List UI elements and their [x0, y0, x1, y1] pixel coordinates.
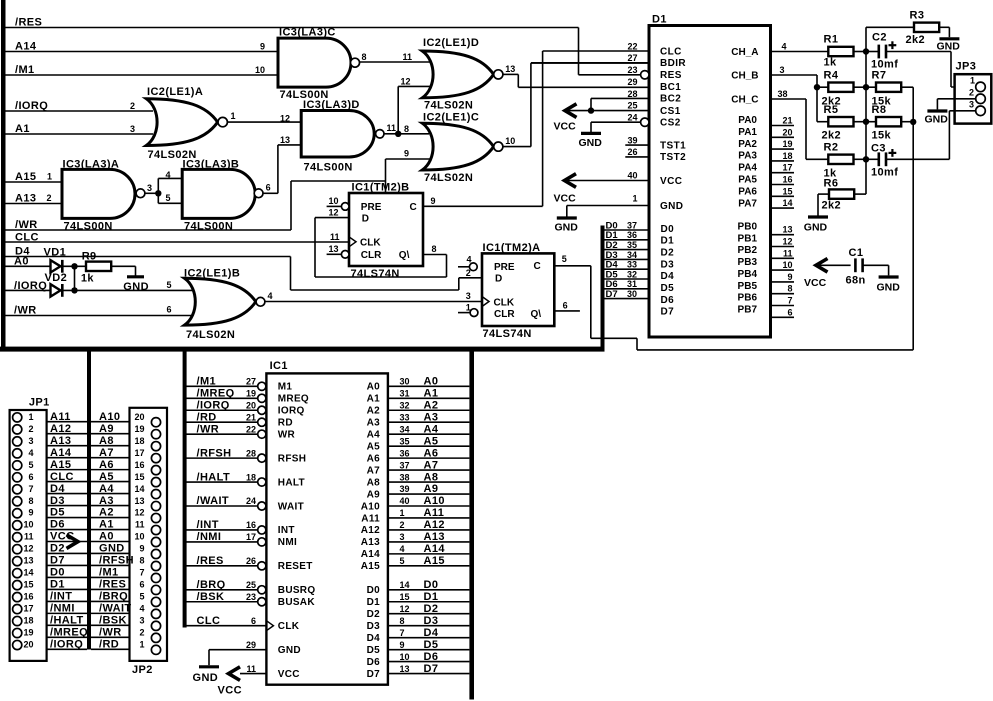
svg-text:D7: D7: [50, 555, 65, 567]
svg-text:25: 25: [246, 580, 256, 590]
svg-text:16: 16: [782, 175, 792, 185]
wire D4 horizontal to TM2A: [291, 289, 459, 291]
svg-text:19: 19: [782, 139, 792, 149]
svg-text:18: 18: [246, 472, 256, 482]
svg-text:20: 20: [134, 412, 144, 422]
svg-text:VD1: VD1: [44, 246, 67, 258]
wire D1 CH_B pin3: [771, 74, 817, 76]
wire IC1 GND pin29: [209, 649, 266, 651]
wire JP1 pin20 row (/IORQ): [47, 648, 87, 650]
svg-text:R9: R9: [82, 251, 97, 263]
svg-text:7: 7: [28, 484, 33, 494]
svg-text:7: 7: [139, 568, 144, 578]
svg-text:1: 1: [231, 111, 236, 121]
svg-text:A6: A6: [424, 447, 439, 459]
junction dot R8 node: [910, 119, 916, 125]
diode VD2: [51, 284, 61, 296]
pin circle JP2-7: [151, 573, 160, 582]
power VCC arrow (JP1 row11): [67, 535, 79, 549]
svg-text:11: 11: [246, 664, 256, 674]
svg-text:13: 13: [400, 664, 410, 674]
svg-text:A2: A2: [367, 406, 381, 417]
svg-text:37: 37: [627, 220, 637, 230]
svg-text:10mf: 10mf: [871, 166, 898, 178]
svg-text:R7: R7: [872, 69, 887, 81]
wire IC3B out: [263, 192, 278, 194]
wire D1 D0 pin37: [605, 229, 650, 231]
wire D1 D7 pin30: [605, 298, 650, 300]
bubble CLR pin13: [341, 251, 349, 259]
svg-text:12: 12: [280, 113, 290, 123]
svg-text:PB1: PB1: [738, 233, 758, 244]
svg-text:A1: A1: [424, 387, 439, 399]
wire D1 CLC pin22: [543, 50, 649, 52]
svg-text:PB7: PB7: [738, 305, 758, 316]
wire IC1 A3 pin33: [388, 421, 470, 423]
svg-text:24: 24: [627, 112, 637, 122]
junction dot R5/R8: [863, 119, 869, 125]
svg-text:A4: A4: [367, 429, 381, 440]
svg-text:R6: R6: [824, 177, 839, 189]
svg-text:9: 9: [787, 272, 792, 282]
svg-text:15: 15: [782, 186, 792, 196]
wire D1 BC2 pin28: [591, 97, 649, 99]
wire IC1 A15 pin5: [388, 565, 470, 567]
output bubble IC2A: [218, 117, 227, 126]
svg-text:A2: A2: [99, 507, 114, 519]
svg-text:9: 9: [400, 640, 405, 650]
svg-text:23: 23: [627, 65, 637, 75]
svg-text:3: 3: [147, 183, 152, 193]
ground (R6): [808, 215, 828, 218]
wire JP1 pin6 row (CLC): [47, 481, 87, 483]
wire thick IC1 control bus vertical: [183, 351, 187, 628]
output bubble IC2D: [494, 70, 503, 79]
svg-text:16: 16: [134, 460, 144, 470]
svg-text:74LS00N: 74LS00N: [64, 220, 113, 232]
bubble pin16: [258, 526, 266, 534]
svg-text:19: 19: [23, 628, 33, 638]
svg-text:2: 2: [139, 628, 144, 638]
wire /IORQ row to VD2: [5, 289, 51, 291]
pin circle JP1-18: [13, 616, 22, 625]
svg-text:IC3(LA3)C: IC3(LA3)C: [279, 26, 336, 38]
svg-text:6: 6: [787, 307, 792, 317]
svg-text:1k: 1k: [81, 272, 95, 284]
svg-text:21: 21: [782, 116, 792, 126]
wire D1 D1 pin36: [605, 239, 650, 241]
wire D1 D4 pin33: [605, 268, 650, 270]
svg-text:A15: A15: [424, 555, 445, 567]
junction dot BC2/CS1: [588, 107, 594, 113]
ground (JP3 pin2): [927, 109, 947, 112]
pin circle JP1-12: [13, 545, 22, 554]
svg-text:A7: A7: [99, 447, 114, 459]
svg-text:JP2: JP2: [132, 664, 153, 676]
svg-text:CLK: CLK: [278, 621, 300, 632]
wire /WR vertical to pin9 row: [385, 159, 387, 193]
svg-text:CS1: CS1: [660, 106, 681, 117]
svg-text:IC2(LE1)A: IC2(LE1)A: [147, 86, 203, 98]
svg-text:5: 5: [166, 193, 171, 203]
bubble pin23: [258, 598, 266, 606]
svg-text:CLC: CLC: [197, 615, 221, 627]
svg-text:/RES: /RES: [197, 555, 224, 567]
svg-text:10: 10: [400, 652, 410, 662]
wire IC1 A1 pin31: [388, 397, 470, 399]
wire R1 to node: [854, 51, 867, 53]
svg-text:19: 19: [134, 424, 144, 434]
svg-text:A6: A6: [99, 459, 114, 471]
svg-text:36: 36: [400, 448, 410, 458]
wire /M1 row to IC3C pin10: [5, 74, 278, 76]
svg-text:8: 8: [362, 52, 367, 62]
svg-text:8: 8: [787, 284, 792, 294]
svg-text:D0: D0: [424, 579, 439, 591]
svg-text:34: 34: [627, 250, 637, 260]
svg-text:PB2: PB2: [738, 245, 758, 256]
bubble pin20: [258, 406, 266, 414]
svg-text:HALT: HALT: [278, 477, 305, 488]
wire JP1 pin5 row (A15): [47, 469, 87, 471]
wire CH_C vertical: [805, 99, 807, 159]
wire D4 row: [5, 256, 291, 258]
svg-text:20: 20: [782, 127, 792, 137]
wire JP1 pin9 row (D5): [47, 517, 87, 519]
pin circle JP2-18: [151, 442, 160, 451]
svg-text:JP3: JP3: [956, 61, 977, 73]
svg-text:WR: WR: [278, 429, 296, 440]
svg-text:PA0: PA0: [738, 115, 757, 126]
svg-text:30: 30: [627, 289, 637, 299]
wire BC2 to CS1 junction: [590, 98, 592, 110]
ground (IC1 pin29): [199, 665, 219, 668]
pin circle JP1-6: [13, 473, 22, 482]
pin circle JP2-8: [151, 561, 160, 570]
svg-text:/BRQ: /BRQ: [99, 591, 128, 603]
wire IC3C out to IC2D pin11: [360, 61, 430, 63]
svg-text:RFSH: RFSH: [278, 453, 306, 464]
resistor R8: [866, 121, 876, 123]
svg-text:14: 14: [400, 580, 410, 590]
svg-text:A11: A11: [50, 411, 71, 423]
pin circle JP2-17: [151, 454, 160, 463]
svg-text:40: 40: [627, 171, 637, 181]
output bubble IC3B: [254, 189, 263, 198]
svg-text:CH_A: CH_A: [731, 47, 758, 58]
svg-text:/BSK: /BSK: [99, 615, 127, 627]
wire into TM2A D pin2: [459, 277, 482, 279]
svg-text:28: 28: [627, 89, 637, 99]
wire VD1 cathode to R9: [62, 265, 86, 267]
svg-text:BUSRQ: BUSRQ: [278, 585, 316, 596]
pin circle JP1-1: [13, 413, 22, 422]
svg-text:D: D: [495, 274, 502, 285]
svg-text:36: 36: [627, 230, 637, 240]
svg-text:R3: R3: [910, 10, 925, 22]
svg-text:2: 2: [47, 193, 52, 203]
output bubble IC3A: [136, 189, 145, 198]
svg-text:D4: D4: [424, 627, 439, 639]
wire D1 CS1 pin25 to VCC: [566, 110, 649, 112]
svg-text:D4: D4: [367, 633, 381, 644]
svg-text:1: 1: [400, 508, 405, 518]
svg-text:/WR: /WR: [197, 423, 220, 435]
pin circle JP2-12: [151, 513, 160, 522]
bubble PRE pin4: [469, 263, 477, 271]
wire IC3A out to junction: [145, 192, 158, 194]
svg-text:GND: GND: [278, 645, 301, 656]
svg-text:29: 29: [246, 640, 256, 650]
bubble pin19: [258, 394, 266, 402]
pin circle JP1-4: [13, 449, 22, 458]
svg-text:1: 1: [139, 640, 144, 650]
wire IC1 /INT pin16: [187, 529, 258, 531]
svg-text:PB4: PB4: [738, 269, 758, 280]
svg-text:RESET: RESET: [278, 561, 313, 572]
svg-text:PB5: PB5: [738, 281, 758, 292]
svg-text:A14: A14: [424, 543, 446, 555]
wire IC1 /BRQ pin25: [187, 589, 258, 591]
svg-text:/NMI: /NMI: [50, 603, 75, 615]
wire JP3 pin2 to GND: [937, 98, 975, 100]
capacitor C2: [877, 45, 880, 59]
wire IC1 A13 pin3: [388, 541, 470, 543]
power VCC arrow (IC1): [229, 667, 241, 681]
svg-text:GND: GND: [660, 201, 683, 212]
svg-text:10: 10: [134, 532, 144, 542]
svg-text:/HALT: /HALT: [50, 615, 84, 627]
svg-text:/MREQ: /MREQ: [197, 387, 235, 399]
polarity plus C2: [889, 44, 897, 46]
resistor R2: [828, 155, 853, 164]
capacitor C3: [877, 152, 880, 166]
diode VD1: [51, 260, 61, 272]
wire IC1 A2 pin32: [388, 409, 470, 411]
wire IC1 A11 pin1: [388, 517, 470, 519]
svg-text:4: 4: [400, 544, 405, 554]
svg-text:27: 27: [627, 53, 637, 63]
svg-text:GND: GND: [804, 221, 828, 233]
svg-text:C3: C3: [871, 142, 886, 154]
wire IC1 /WAIT pin24: [187, 505, 258, 507]
junction dot R1/C2: [863, 48, 869, 54]
wire to IC3B pin4: [158, 177, 183, 179]
svg-text:20: 20: [246, 400, 256, 410]
svg-text:A4: A4: [424, 423, 439, 435]
bubble CLR pin1: [470, 309, 478, 317]
wire thick IC1 address/data bus vertical: [469, 351, 474, 700]
svg-text:17: 17: [134, 448, 144, 458]
svg-text:/WAIT: /WAIT: [99, 603, 132, 615]
svg-text:VCC: VCC: [660, 176, 682, 187]
svg-text:PB3: PB3: [738, 257, 758, 268]
svg-text:CLR: CLR: [361, 250, 382, 261]
svg-text:7: 7: [400, 628, 405, 638]
svg-text:2: 2: [466, 268, 471, 278]
svg-text:37: 37: [400, 460, 410, 470]
svg-text:74LS00N: 74LS00N: [304, 161, 353, 173]
wire IC3D out: [384, 133, 398, 135]
svg-text:BDIR: BDIR: [660, 58, 686, 69]
wire thick JP1/JP2 bus vertical: [87, 351, 91, 650]
wire VD2 cathode to IC2B pin5: [62, 289, 193, 291]
svg-text:GND: GND: [925, 114, 949, 126]
wire IC3B out vertical up: [277, 145, 279, 193]
wire junction vertical VD1-VD2: [74, 266, 76, 290]
svg-text:/INT: /INT: [197, 519, 219, 531]
pin circle JP2-9: [151, 549, 160, 558]
connector JP2: [130, 408, 168, 661]
pin circle JP2-3: [151, 621, 160, 630]
svg-text:CLK: CLK: [494, 298, 515, 309]
wire to IC3B pin5: [158, 202, 183, 204]
wire D4 up-jog to pin2: [458, 278, 460, 290]
svg-text:C: C: [410, 202, 417, 213]
svg-text:17: 17: [246, 532, 256, 542]
svg-text:A11: A11: [361, 513, 380, 524]
svg-text:A7: A7: [367, 465, 381, 476]
wire CS2 to GND: [590, 122, 592, 133]
svg-text:24: 24: [246, 496, 256, 506]
svg-text:74LS00N: 74LS00N: [184, 220, 233, 232]
svg-text:9: 9: [28, 508, 33, 518]
svg-text:16: 16: [246, 520, 256, 530]
wire IC1 A0 pin30: [388, 385, 470, 387]
svg-text:IORQ: IORQ: [278, 406, 305, 417]
wire D1 D5 pin32: [605, 278, 650, 280]
svg-text:A10: A10: [424, 495, 445, 507]
svg-text:29: 29: [627, 77, 637, 87]
svg-text:9: 9: [431, 196, 436, 206]
svg-text:2k2: 2k2: [822, 200, 842, 212]
svg-text:10: 10: [329, 196, 339, 206]
junction dot VD1: [71, 263, 77, 269]
svg-text:A13: A13: [361, 537, 380, 548]
svg-text:10: 10: [505, 136, 515, 146]
bubble pin28: [258, 454, 266, 462]
wire JP1 pin8 row (D3): [47, 505, 87, 507]
svg-text:D6: D6: [367, 657, 381, 668]
wire /IORQ row to IC2A pin2: [5, 110, 153, 112]
bubble pin18: [258, 478, 266, 486]
junction dot R4/R7: [863, 84, 869, 90]
wire JP1 pin10 row (D6): [47, 529, 87, 531]
svg-text:A12: A12: [361, 525, 380, 536]
svg-text:A0: A0: [99, 531, 114, 543]
svg-text:IC2(LE1)C: IC2(LE1)C: [423, 111, 479, 123]
pin circle JP1-16: [13, 593, 22, 602]
pin circle JP3-2: [976, 94, 986, 104]
svg-text:18: 18: [134, 436, 144, 446]
svg-text:R1: R1: [824, 34, 839, 46]
clk edge mark (IC1): [266, 621, 273, 631]
svg-text:/WR: /WR: [99, 627, 122, 639]
svg-text:4: 4: [166, 170, 171, 180]
svg-text:IC1: IC1: [270, 360, 288, 372]
wire C1 to GND: [863, 264, 889, 266]
svg-text:PA1: PA1: [738, 127, 757, 138]
svg-text:D4: D4: [661, 271, 675, 282]
wire CH_B vertical: [816, 75, 818, 122]
svg-text:R8: R8: [872, 104, 887, 116]
capacitor C1: [854, 258, 857, 272]
output bubble IC3D: [376, 130, 384, 138]
pin circle JP3-3: [976, 106, 986, 116]
svg-text:14: 14: [23, 568, 33, 578]
wire R8 to right node: [901, 121, 913, 123]
ground (D1 pin1): [557, 216, 577, 219]
wire IC2A out to IC3D pin12: [227, 121, 301, 123]
svg-text:D2: D2: [50, 543, 65, 555]
wire IC1 D4 pin7: [388, 637, 470, 639]
svg-text:22: 22: [246, 424, 256, 434]
svg-text:D7: D7: [606, 289, 618, 300]
svg-text:VCC: VCC: [218, 684, 242, 696]
wire pin29 to GND: [208, 650, 210, 666]
svg-text:8: 8: [400, 616, 405, 626]
svg-text:1k: 1k: [824, 57, 838, 69]
wire IC1 D1 pin15: [388, 601, 470, 603]
svg-text:6: 6: [251, 616, 256, 626]
pin circle JP3-1: [976, 82, 986, 92]
wire C output pin5 to R7/R8 node: [554, 265, 591, 267]
wire /WR row to IC2B pin6: [5, 315, 193, 317]
pin circle JP1-8: [13, 497, 22, 506]
pin circle JP2-5: [151, 597, 160, 606]
svg-text:A11: A11: [424, 507, 445, 519]
svg-text:PA6: PA6: [738, 186, 757, 197]
wire mixing node vertical: [865, 27, 867, 194]
svg-text:CLK: CLK: [360, 238, 381, 249]
svg-text:26: 26: [246, 556, 256, 566]
pin circle JP2-6: [151, 585, 160, 594]
wire R6 to GND: [818, 193, 829, 195]
pin circle JP2-14: [151, 489, 160, 498]
wire D4 vertical: [290, 257, 292, 291]
wire A13 row to IC3A pin2: [5, 203, 62, 205]
svg-text:9: 9: [260, 42, 265, 52]
svg-text:BC2: BC2: [660, 94, 681, 105]
svg-text:A8: A8: [367, 477, 381, 488]
wire D1 TST2 pin26 stub: [625, 156, 649, 158]
svg-text:PA5: PA5: [738, 175, 757, 186]
svg-text:D0: D0: [367, 585, 381, 596]
svg-text:13: 13: [329, 244, 339, 254]
svg-text:11: 11: [330, 232, 340, 242]
wire JP1 pin7 row (D4): [47, 493, 87, 495]
svg-text:BC1: BC1: [660, 82, 681, 93]
wire JP1 pin16 row (/INT): [47, 600, 87, 602]
svg-text:/MREQ: /MREQ: [50, 627, 88, 639]
svg-text:13: 13: [134, 496, 144, 506]
svg-text:A12: A12: [424, 519, 445, 531]
svg-text:2: 2: [969, 87, 974, 97]
svg-text:A13: A13: [50, 435, 71, 447]
svg-text:2k2: 2k2: [906, 34, 926, 46]
svg-text:D0: D0: [661, 224, 675, 235]
wire IC1 A9 pin39: [388, 493, 470, 495]
wire JP3 pin3: [949, 110, 975, 112]
svg-text:A10: A10: [99, 411, 120, 423]
wire IC1 /RD pin21: [187, 421, 258, 423]
wire /WR horizontal jog: [291, 180, 386, 182]
svg-text:R2: R2: [824, 142, 839, 154]
chip D1 PB0-PB7 pin stubs: [771, 234, 794, 236]
svg-text:3: 3: [780, 65, 785, 75]
svg-text:12: 12: [401, 77, 411, 87]
svg-text:16: 16: [23, 592, 33, 602]
